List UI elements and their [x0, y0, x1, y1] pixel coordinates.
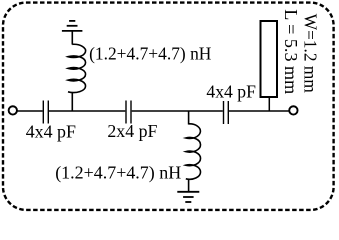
- svg-text:L = 5.3 mm: L = 5.3 mm: [281, 9, 301, 94]
- svg-text:4x4 pF: 4x4 pF: [26, 122, 76, 142]
- svg-text:(1.2+4.7+4.7) nH: (1.2+4.7+4.7) nH: [55, 163, 181, 184]
- svg-text:2x4 pF: 2x4 pF: [107, 121, 157, 141]
- svg-text:(1.2+4.7+4.7) nH: (1.2+4.7+4.7) nH: [89, 43, 211, 64]
- svg-text:W=1.2 mm: W=1.2 mm: [301, 14, 321, 93]
- svg-text:4x4 pF: 4x4 pF: [206, 81, 256, 101]
